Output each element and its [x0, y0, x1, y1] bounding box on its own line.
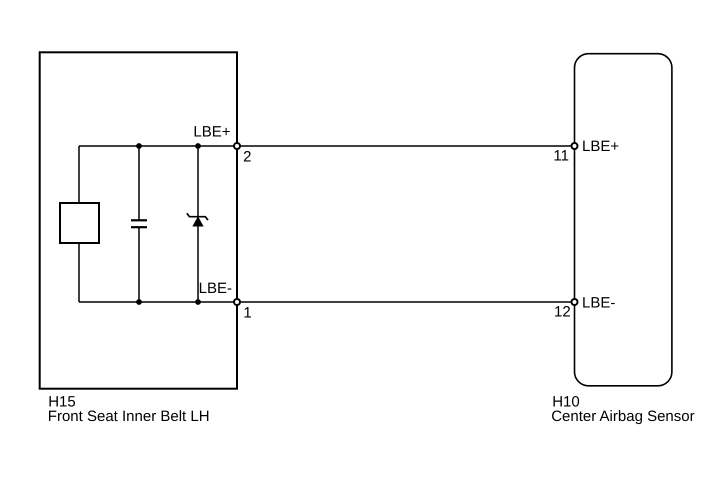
junction dot bottom capacitor — [136, 299, 142, 305]
svg-text:Center Airbag Sensor: Center Airbag Sensor — [551, 408, 694, 425]
junction dot top zener — [195, 143, 201, 149]
pin 2 terminal circle — [234, 143, 240, 149]
wire zener branch bottom — [197, 226, 199, 302]
connector H10 outline (Center Airbag Sensor) — [575, 54, 672, 386]
pin 11 terminal circle — [572, 143, 578, 149]
wire LBE- net (bottom): pin 1 to pin 12 — [79, 301, 575, 303]
svg-text:LBE-: LBE- — [582, 295, 615, 312]
zener diode D1 anode triangle — [193, 217, 203, 226]
svg-text:Front Seat Inner Belt LH: Front Seat Inner Belt LH — [48, 408, 210, 425]
svg-text:LBE+: LBE+ — [582, 138, 619, 155]
svg-text:1: 1 — [243, 305, 251, 322]
pin 1 terminal circle — [234, 299, 240, 305]
wire capacitor branch bottom — [138, 228, 140, 303]
junction dot top capacitor — [136, 143, 142, 149]
svg-text:LBE-: LBE- — [199, 280, 232, 297]
squib resistor element (square) — [60, 203, 99, 243]
wire zener branch top — [197, 146, 199, 217]
svg-text:LBE+: LBE+ — [193, 124, 230, 141]
connector H15 outline (Front Seat Inner Belt LH) — [40, 52, 237, 388]
pin 12 terminal circle — [572, 299, 578, 305]
zener diode D1 cathode bar — [187, 213, 208, 220]
wire capacitor branch top — [138, 146, 140, 220]
svg-text:2: 2 — [243, 149, 251, 166]
wire left branch (squib) — [78, 146, 80, 302]
capacitor C1 plates — [131, 219, 147, 221]
svg-text:11: 11 — [553, 148, 569, 165]
junction dot bottom zener — [195, 299, 201, 305]
wire LBE+ net (top): pin 2 to pin 11 — [79, 145, 575, 147]
svg-text:12: 12 — [554, 304, 571, 321]
